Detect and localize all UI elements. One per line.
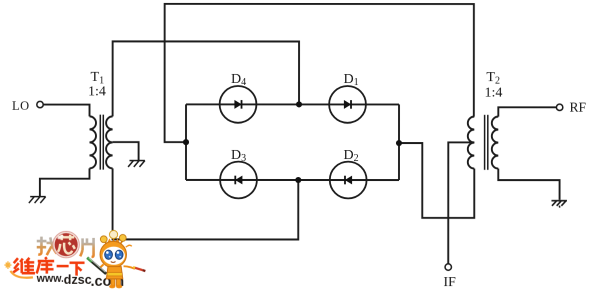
T1 primary winding [89,116,96,168]
eyes [105,250,113,259]
watermark: url www.dzsc.com [36,273,124,289]
wire ring right side [398,104,400,180]
terminal IF [445,264,451,270]
svg-text:D1: D1 [344,72,359,88]
svg-text:dzsc: dzsc [64,273,92,287]
node ring right [396,140,402,146]
wire top loop (ring left node to T2 primary top) [165,4,474,142]
ground (T1 tap) [128,161,145,167]
svg-text:1:4: 1:4 [485,85,503,100]
svg-text:IF: IF [443,275,456,289]
body [106,266,122,278]
right arm with red dart [124,266,135,269]
watermark: orange swoosh [10,271,33,278]
wire T1 primary bottom to ground [40,168,90,196]
diode D2 [330,162,367,199]
watermark: red text weiku-yixia [13,257,84,276]
wire ring top side [186,103,399,105]
T2 primary winding [468,117,475,169]
node ring left [183,139,189,145]
legs [111,279,115,286]
transformer T2 [468,115,499,170]
terminal RF [556,104,562,110]
head curl [126,245,132,247]
svg-text:www.: www. [36,273,64,285]
svg-text:D2: D2 [343,148,358,164]
diode D1 [329,86,366,123]
head [100,241,126,267]
left arm [99,264,103,269]
diode D4 [220,86,257,123]
ground (T2 secondary) [551,201,567,208]
crown stalks [104,239,122,246]
svg-text:LO: LO [12,99,30,113]
svg-text:D4: D4 [231,72,246,88]
ground (T1 primary) [29,197,46,203]
face [103,247,125,265]
svg-text:D3: D3 [231,148,246,164]
wire ring left side [185,104,187,180]
svg-text:RF: RF [570,100,587,115]
transformer T1 [89,115,112,170]
diode D3 [220,162,257,199]
crown spikes [107,238,120,243]
wire T1 tap to ground [113,142,139,160]
crown balls [100,236,107,243]
pencil dark [87,258,106,274]
wire T2 secondary bottom to ground [498,169,559,200]
wire LO to T1 primary top [43,105,89,117]
wire T1 secondary top to ring top junction [113,41,299,116]
mouth [111,262,116,263]
T1 secondary winding [106,116,113,168]
terminal LO [37,101,43,107]
watermark: sparkle [4,261,11,269]
T2 secondary winding [492,117,499,169]
watermark: gray char pian [80,238,93,257]
wire T2 tap to IF terminal [448,142,474,263]
watermark: mascot [87,230,145,288]
T1 core [100,115,103,170]
wire T2 secondary top to RF terminal [498,107,556,116]
svg-text:T2: T2 [486,70,500,87]
watermark: red disc with xin [53,231,79,257]
wire T1 secondary bottom to ring bottom junction [113,168,299,239]
node top junction [296,101,302,107]
svg-text:1:4: 1:4 [88,84,106,99]
wire ring bottom side [186,179,399,181]
wire ring right node to T2 primary bottom [399,143,474,218]
node bottom junction [295,177,301,183]
T2 core [485,115,488,170]
